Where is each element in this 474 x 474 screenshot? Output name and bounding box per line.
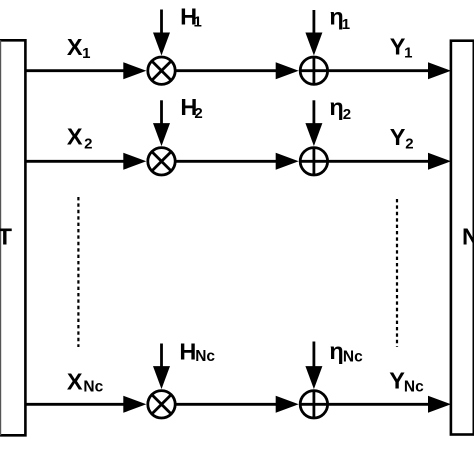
wire adder 3 to right block <box>328 403 432 406</box>
wire multiplier 3 to adder 3 <box>175 403 280 406</box>
wire multiplier 2 to adder 2 <box>175 160 280 163</box>
wire adder 1 to right block <box>328 69 432 72</box>
svg-text:1: 1 <box>404 45 412 62</box>
label H1 <box>180 3 202 30</box>
arrowhead into multiplier 3 <box>123 396 146 413</box>
eta2 arrow into adder 2 <box>305 100 322 146</box>
left ellipsis dashed line <box>77 197 79 347</box>
node label Y1 <box>390 33 413 61</box>
svg-text:2: 2 <box>194 105 202 122</box>
right ellipsis dashed line <box>396 199 398 347</box>
arrowhead into adder 1 <box>276 62 299 79</box>
arrowhead into right block row 1 <box>428 62 451 79</box>
svg-text:2: 2 <box>405 135 413 152</box>
wire multiplier 1 to adder 1 <box>175 69 280 72</box>
label HNc <box>179 339 215 365</box>
wire adder 2 to right block <box>328 160 432 163</box>
adder U6 (circle with +) <box>300 391 327 418</box>
svg-text:1: 1 <box>82 45 90 62</box>
svg-text:Nc: Nc <box>343 348 363 365</box>
arrowhead into right block row 3 <box>428 396 451 413</box>
node label X1 <box>67 34 91 62</box>
svg-text:X: X <box>67 34 83 60</box>
svg-text:Nc: Nc <box>404 378 424 395</box>
H2 arrow into multiplier 2 <box>153 100 170 146</box>
node label Y2 <box>390 124 414 152</box>
left block (IFFT, clipped at left edge) <box>0 40 25 435</box>
etaNc arrow into adder 3 <box>305 342 322 390</box>
svg-text:T: T <box>0 224 13 250</box>
multiplier U3 (circle with X) <box>148 148 175 175</box>
right block (FFT, clipped at right edge) <box>451 41 474 435</box>
svg-text:H: H <box>179 339 196 365</box>
node label YNc <box>389 367 424 395</box>
eta1 arrow into adder 1 <box>305 10 322 56</box>
node label X2 <box>67 124 93 153</box>
svg-text:X: X <box>67 124 83 150</box>
label eta1 <box>329 3 350 33</box>
svg-text:N: N <box>462 224 474 250</box>
svg-text:Nc: Nc <box>195 348 215 365</box>
label eta2 <box>329 94 351 123</box>
svg-text:1: 1 <box>194 14 202 31</box>
label etaNc <box>329 338 363 366</box>
svg-text:Nc: Nc <box>83 379 103 396</box>
svg-text:η: η <box>329 338 343 364</box>
adder U2 (circle with +) <box>300 57 327 84</box>
svg-text:Y: Y <box>390 124 406 150</box>
svg-text:η: η <box>329 94 343 120</box>
wire X2: left block to multiplier 2 <box>25 160 140 163</box>
svg-text:Y: Y <box>389 367 405 393</box>
arrowhead into adder 2 <box>276 153 299 170</box>
arrowhead into adder 3 <box>276 396 299 413</box>
svg-text:2: 2 <box>343 106 351 123</box>
H1 arrow into multiplier 1 <box>153 10 170 56</box>
wire X1: left block to multiplier 1 <box>25 69 140 72</box>
svg-text:1: 1 <box>342 16 350 33</box>
wire XNc: left block to multiplier 3 <box>25 403 140 406</box>
label H2 <box>180 94 202 122</box>
arrowhead into right block row 2 <box>428 153 451 170</box>
node label XNc <box>67 369 104 396</box>
arrowhead into multiplier 2 <box>123 153 146 170</box>
adder U4 (circle with +) <box>300 148 327 175</box>
svg-text:2: 2 <box>84 135 92 152</box>
multiplier U1 (circle with X) <box>148 57 175 84</box>
multiplier U5 (circle with X) <box>148 391 175 418</box>
arrowhead into multiplier 1 <box>123 62 146 79</box>
svg-text:X: X <box>67 369 83 395</box>
HNc arrow into multiplier 3 <box>153 344 170 390</box>
